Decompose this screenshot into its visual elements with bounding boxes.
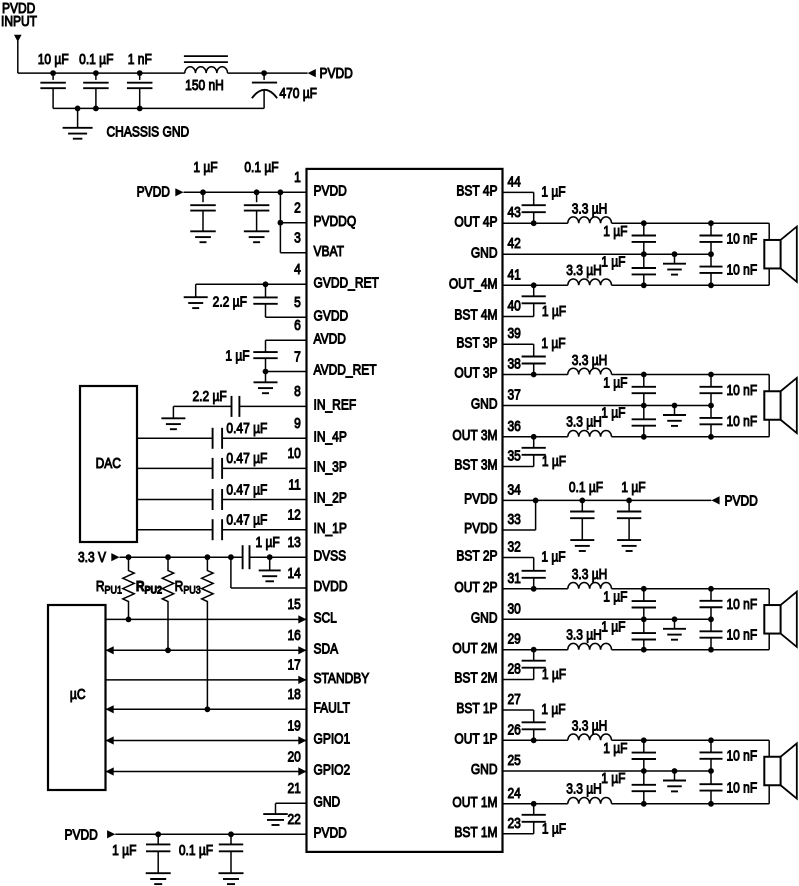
svg-text:SDA: SDA [314, 640, 339, 656]
capacitor 1 uF DVSS (series) [243, 545, 250, 569]
capacitor 10 nF 2M [700, 619, 723, 649]
label 0.1 uF mid [569, 479, 603, 495]
node junction BST2P on OUT 2P [531, 586, 537, 592]
capacitor 1 uF bootstrap 1M [522, 804, 546, 822]
svg-text:INPUT: INPUT [1, 13, 37, 29]
inductor 150 nH [185, 67, 228, 73]
svg-text:10 nF: 10 nF [727, 262, 758, 278]
svg-text:1 µF: 1 µF [601, 253, 625, 269]
node junction C1uF bottom [155, 831, 161, 837]
pin numbers left (1-22) [287, 169, 300, 827]
input arrow (down) [14, 35, 22, 42]
label 1 uF BST 4M [542, 303, 566, 319]
wire BST 2M stub [503, 668, 534, 680]
wire OUT 2M [503, 649, 568, 651]
node junction GND25 a [641, 768, 647, 774]
net label PVDD INPUT [1, 0, 37, 29]
capacitor 1 uF filter 1M [632, 771, 656, 804]
inductor 3.3 uH OUT 3M [568, 430, 612, 436]
node junction GND30 b [672, 616, 678, 622]
svg-text:IN_4P: IN_4P [314, 428, 348, 444]
svg-text:1 µF: 1 µF [255, 534, 279, 550]
capacitor 0.1 uF mid [570, 500, 594, 539]
svg-text:150 nH: 150 nH [185, 77, 224, 93]
svg-text:470 µF: 470 µF [279, 85, 317, 101]
wire BST 1M stub [503, 822, 534, 834]
net arrow 3.3V [111, 553, 119, 561]
node junction GND25 c [708, 768, 714, 774]
label 1 uF BST 3P [541, 335, 565, 351]
label 1 uF BST 2P [541, 548, 565, 564]
ground IN_REF [161, 406, 185, 429]
resistor RPU3 [202, 557, 213, 709]
svg-text:PVDD: PVDD [464, 491, 497, 507]
ground 0.1uF mid [570, 540, 594, 551]
pin names right [449, 183, 498, 841]
svg-text:3.3 µH: 3.3 µH [566, 262, 602, 278]
label 10 nF 4P [727, 231, 758, 247]
label 1 uF filter 2P [603, 589, 627, 605]
svg-text:1 µF: 1 µF [541, 335, 565, 351]
wire OUT 4P [503, 222, 568, 224]
op-amp/IC U1 body [307, 169, 503, 852]
capacitor 1 uF filter 2M [632, 619, 656, 649]
node junction BST4P on OUT 4P [531, 220, 537, 226]
svg-text:IN_3P: IN_3P [314, 459, 348, 475]
node junction gnd bus 0.1uF [93, 106, 99, 112]
svg-text:24: 24 [508, 785, 521, 801]
svg-text:19: 19 [287, 717, 300, 733]
svg-text:GVDD: GVDD [314, 307, 349, 323]
wire AVDD_RET [266, 371, 307, 373]
label 3.3 uH OUT 4M [566, 262, 602, 278]
wire PVDD input rail [18, 72, 185, 74]
svg-text:OUT_4M: OUT_4M [449, 275, 498, 291]
pin numbers right (23-44) [508, 173, 521, 831]
svg-text:µC: µC [70, 686, 86, 702]
svg-text:PVDD: PVDD [725, 492, 758, 508]
svg-text:10 nF: 10 nF [727, 413, 758, 429]
capacitor 10 nF 4P [700, 223, 723, 254]
svg-text:OUT 2M: OUT 2M [452, 640, 497, 656]
wire OUT 2P [503, 588, 568, 590]
svg-text:10 nF: 10 nF [727, 382, 758, 398]
svg-text:40: 40 [508, 298, 521, 314]
label 3.3 uH OUT 3P [572, 352, 608, 368]
ground output 1 [663, 771, 686, 791]
node junction GND37 b [672, 403, 678, 409]
svg-text:22: 22 [287, 811, 300, 827]
node junction branch pin2/3 [278, 189, 284, 195]
svg-text:3.3 µH: 3.3 µH [572, 201, 608, 217]
wire BST 2P stub [503, 558, 534, 571]
svg-text:0.1 µF: 0.1 µF [569, 479, 603, 495]
svg-text:DAC: DAC [96, 455, 122, 471]
ground output 2 [663, 619, 686, 639]
node junction OUT4P C10nF [708, 220, 714, 226]
svg-text:OUT 1M: OUT 1M [452, 794, 497, 810]
capacitor 0.47 uF pin9 [213, 428, 223, 449]
chassis ground [63, 108, 93, 138]
svg-text:1 µF: 1 µF [542, 820, 566, 836]
svg-text:OUT 3P: OUT 3P [454, 365, 497, 381]
svg-text:1 µF: 1 µF [603, 223, 627, 239]
wire 3.3V rail [120, 556, 243, 558]
svg-text:9: 9 [294, 415, 301, 431]
svg-text:GND: GND [471, 609, 498, 625]
wire OUT 3P [503, 374, 568, 376]
svg-text:BST 4M: BST 4M [454, 307, 497, 323]
label 1 uF BST 1P [541, 701, 565, 717]
svg-text:31: 31 [508, 570, 521, 586]
label 0.47 uF pin11 [226, 481, 267, 497]
svg-text:IN_1P: IN_1P [314, 520, 348, 536]
node junction 1nF top [137, 70, 143, 76]
node junction OUT3P C1uF [641, 372, 647, 378]
label 1 uF mid [621, 479, 645, 495]
wire BST 3P stub [503, 344, 534, 356]
svg-text:BST 1M: BST 1M [454, 824, 497, 840]
svg-text:OUT 4P: OUT 4P [454, 213, 497, 229]
inductor 3.3 uH OUT 2M [568, 643, 612, 649]
inductor 3.3 uH OUT 3P [568, 368, 612, 374]
node junction GND42 c [708, 251, 714, 257]
capacitor 1 nF [127, 83, 153, 109]
node junction GND42 b [672, 251, 678, 257]
wire OUT 4M [503, 284, 568, 286]
net arrow PVDD mid [711, 496, 719, 504]
node junction C0.1uF bottom [228, 831, 234, 837]
svg-text:7: 7 [294, 348, 301, 364]
svg-text:27: 27 [508, 691, 521, 707]
svg-text:PVDD: PVDD [137, 184, 170, 200]
svg-text:1 nF: 1 nF [128, 51, 152, 67]
label 10 nF 3P [727, 382, 758, 398]
svg-text:1 µF: 1 µF [603, 374, 627, 390]
inductor 3.3 uH OUT 2P [568, 583, 612, 589]
net label PVDD bottom [64, 826, 97, 842]
wire PVDD pin33 stub [503, 500, 536, 530]
wire ground bus [53, 107, 264, 109]
net label PVDD (pin1) [137, 184, 170, 200]
svg-text:BST 2M: BST 2M [454, 670, 497, 686]
label RPU1 [96, 578, 123, 597]
svg-text:16: 16 [287, 627, 300, 643]
label 1 uF BST 1M [542, 820, 566, 836]
wire SCL [106, 615, 307, 623]
svg-text:18: 18 [287, 686, 300, 702]
wire GPIO1 [106, 736, 307, 744]
wire OUT 4M to speaker [612, 268, 770, 285]
net label 3.3 V [78, 549, 106, 565]
svg-text:PVDD: PVDD [464, 520, 497, 536]
node junction pin2 [278, 220, 284, 226]
svg-text:0.1 µF: 0.1 µF [244, 159, 278, 175]
label 10 nF 2P [727, 596, 758, 612]
capacitor 1 uF AVDD [253, 340, 277, 371]
svg-text:3.3 µH: 3.3 µH [566, 781, 602, 797]
svg-text:1: 1 [294, 169, 301, 185]
capacitor 10 uF lead [52, 73, 54, 80]
label 10 uF [38, 51, 69, 67]
label 0.1 uF bottom [179, 842, 213, 858]
label 10 nF 3M [727, 413, 758, 429]
label DAC [96, 455, 122, 471]
svg-text:1 µF: 1 µF [112, 842, 136, 858]
net arrow PVDD bottom [107, 830, 115, 838]
label 0.47 uF pin10 [226, 450, 267, 466]
wire GND pin21 [276, 802, 307, 804]
label 1 uF filter 1P [603, 740, 627, 756]
ground DVSS [259, 557, 281, 581]
ground below 0.1uF pin1 [244, 231, 270, 242]
wire OUT 2P to speaker [612, 589, 770, 605]
svg-text:28: 28 [508, 661, 521, 677]
node junction GND30 a [641, 616, 647, 622]
svg-text:43: 43 [508, 204, 521, 220]
speaker channel 1 [764, 743, 797, 798]
node junction 470uF [261, 70, 267, 76]
node junction RPU2 top [165, 554, 171, 560]
wire AVDD [266, 339, 307, 341]
label 3.3 uH OUT 2M [566, 626, 602, 642]
wire DAC to cap IN pin9 [137, 437, 212, 439]
ground 1uF mid [617, 540, 641, 551]
node junction GND25 b [672, 768, 678, 774]
capacitor 1 uF bootstrap 2M [522, 650, 546, 668]
wire rail after inductor [228, 72, 308, 74]
svg-text:4: 4 [294, 261, 301, 277]
svg-text:1 µF: 1 µF [621, 479, 645, 495]
svg-text:GPIO2: GPIO2 [314, 762, 351, 778]
node junction gnd bus chassis [75, 106, 81, 112]
wire OUT 1P to speaker [612, 740, 770, 756]
node junction FAULT RPU3 [205, 706, 211, 712]
svg-text:2.2 µF: 2.2 µF [213, 293, 247, 309]
capacitor 0.1 uF bottom [219, 834, 243, 873]
svg-text:IN_REF: IN_REF [314, 397, 357, 413]
ground below 1uF pin1 [190, 231, 216, 242]
node junction OUT1M boot [531, 801, 537, 807]
capacitor 10 nF 4M [700, 254, 723, 285]
wire PVDD pin34 rail [503, 499, 712, 501]
svg-text:0.1 µF: 0.1 µF [179, 842, 213, 858]
node junction GVDD cap [263, 281, 269, 287]
svg-text:1 µF: 1 µF [541, 183, 565, 199]
wire GVDD_RET [196, 283, 307, 285]
svg-text:GND: GND [471, 244, 498, 260]
node junction GND42 a [641, 251, 647, 257]
svg-text:3.3 µH: 3.3 µH [572, 352, 608, 368]
wire OUT 3P to speaker [612, 375, 770, 392]
label 1 uF filter 3P [603, 374, 627, 390]
node junction RPU3 top [205, 554, 211, 560]
capacitor 1 uF bottom [146, 834, 170, 873]
capacitor 1 uF filter 4P [632, 223, 656, 254]
capacitor 470 uF (polarized) [252, 73, 277, 108]
node junction OUT2P C1uF [641, 586, 647, 592]
svg-text:3.3 V: 3.3 V [78, 549, 106, 565]
wire BST 1P stub [503, 710, 534, 722]
ground pin21 [263, 803, 288, 825]
svg-text:2: 2 [294, 200, 301, 216]
wire DAC to cap IN pin11 [137, 499, 212, 501]
ground 1uF bottom [146, 873, 171, 884]
ground output 3 [663, 406, 686, 426]
ground GVDD_RET [184, 284, 208, 308]
svg-text:10 nF: 10 nF [727, 596, 758, 612]
node junction OUT1M C10nF [708, 801, 714, 807]
wire PVDD rail pin1 [184, 191, 307, 193]
node junction 0.1uF top [93, 70, 99, 76]
resistor RPU2 [162, 557, 173, 650]
node junction DVDD branch [228, 554, 234, 560]
wire DAC to cap IN pin12 [137, 529, 212, 531]
svg-text:3.3 µH: 3.3 µH [566, 414, 602, 430]
svg-text:17: 17 [287, 657, 300, 673]
wire SDA [106, 646, 307, 654]
svg-text:BST 4P: BST 4P [456, 183, 497, 199]
svg-text:GND: GND [471, 761, 498, 777]
capacitor 0.1 uF (pin1) [244, 192, 270, 231]
node junction GND30 c [708, 616, 714, 622]
svg-text:PVDD: PVDD [314, 824, 347, 840]
node junction OUT3M C1uF [641, 434, 647, 440]
svg-text:PVDD: PVDD [64, 826, 97, 842]
svg-text:STANDBY: STANDBY [314, 670, 370, 686]
capacitor 0.47 uF pin10 [213, 458, 223, 479]
svg-text:CHASSIS GND: CHASSIS GND [107, 123, 190, 139]
svg-text:0.47 µF: 0.47 µF [226, 481, 267, 497]
svg-text:DVDD: DVDD [314, 578, 348, 594]
node junction RPU1 top [126, 554, 132, 560]
svg-text:10 nF: 10 nF [727, 231, 758, 247]
capacitor 0.47 uF pin11 [213, 489, 223, 510]
svg-text:DVSS: DVSS [314, 547, 347, 563]
speaker channel 3 [764, 378, 797, 433]
svg-text:BST 1P: BST 1P [456, 700, 497, 716]
svg-text:1 µF: 1 µF [542, 303, 566, 319]
node junction OUT3M boot [531, 434, 537, 440]
node junction OUT4M C1uF [641, 282, 647, 288]
ferrite bead core [184, 56, 228, 62]
wire OUT 4P to speaker [612, 223, 770, 240]
wire DAC to cap IN pin10 [137, 467, 212, 469]
capacitor 10 uF [40, 83, 66, 109]
svg-text:10 nF: 10 nF [727, 748, 758, 764]
svg-text:GVDD_RET: GVDD_RET [314, 274, 379, 290]
label 1 uF bottom [112, 842, 136, 858]
node junction OUT1M C1uF [641, 801, 647, 807]
svg-text:10 µF: 10 µF [38, 51, 69, 67]
net arrow PVDD (top right) [308, 69, 316, 77]
node junction BST1P on OUT 1P [531, 737, 537, 743]
wire OUT 1P [503, 739, 568, 741]
label 0.47 uF pin9 [226, 420, 267, 436]
label 1 uF BST 3M [542, 453, 566, 469]
wire cap to IC pin10 [222, 467, 306, 469]
node junction OUT3M C10nF [708, 434, 714, 440]
svg-text:10 nF: 10 nF [727, 779, 758, 795]
svg-text:1 µF: 1 µF [601, 770, 625, 786]
svg-text:3.3 µH: 3.3 µH [572, 718, 608, 734]
svg-text:3.3 µH: 3.3 µH [572, 566, 608, 582]
wire GND 30 [503, 618, 712, 620]
node junction C 0.1uF pin1 [254, 189, 260, 195]
svg-text:OUT 3M: OUT 3M [452, 427, 497, 443]
label 1 uF filter 1M [601, 770, 625, 786]
capacitor 1 uF mid [617, 500, 641, 539]
wire OUT 3M [503, 436, 568, 438]
wire FAULT [106, 705, 307, 713]
wire cap to IC pin9 [222, 437, 306, 439]
svg-text:35: 35 [508, 448, 521, 464]
svg-text:29: 29 [508, 631, 521, 647]
svg-text:1 µF: 1 µF [541, 548, 565, 564]
svg-text:23: 23 [508, 815, 521, 831]
resistor RPU1 [123, 557, 134, 619]
capacitor 1 uF (pin1) [190, 192, 216, 231]
wire GPIO2 [106, 767, 307, 775]
capacitor 10 nF 1M [700, 771, 723, 804]
svg-text:37: 37 [508, 387, 521, 403]
speaker channel 4 [764, 227, 797, 282]
capacitor 0.1 uF input lead [95, 73, 97, 80]
capacitor 1 uF filter 3M [632, 406, 656, 437]
svg-text:30: 30 [508, 600, 521, 616]
capacitor 0.47 uF pin12 [213, 519, 223, 540]
label 10 nF 1P [727, 748, 758, 764]
svg-text:36: 36 [508, 418, 521, 434]
svg-text:GND: GND [314, 793, 341, 809]
wire OUT 1M [503, 803, 568, 805]
capacitor 1 uF filter 2P [632, 589, 656, 620]
svg-text:1 µF: 1 µF [542, 666, 566, 682]
wire IN_REF right [240, 405, 307, 407]
capacitor 10 nF 3P [700, 375, 723, 406]
label RPU3 [175, 578, 202, 597]
svg-text:GND: GND [471, 396, 498, 412]
capacitor 1 uF bootstrap 2P [522, 571, 546, 589]
wire GND 42 [503, 253, 712, 255]
svg-text:FAULT: FAULT [314, 699, 350, 715]
svg-text:6: 6 [294, 317, 301, 333]
svg-text:26: 26 [508, 721, 521, 737]
node junction OUT4P C1uF [641, 220, 647, 226]
capacitor 1 uF filter 1P [632, 740, 656, 771]
node junction OUT3P C10nF [708, 372, 714, 378]
label uC [70, 686, 86, 702]
node junction C 1uF [200, 189, 206, 195]
capacitor 1 nF lead [139, 73, 141, 80]
node junction BST3P on OUT 3P [531, 372, 537, 378]
wire DVDD [231, 557, 307, 588]
capacitor 1 uF bootstrap 1P [522, 722, 546, 740]
node junction OUT1P C1uF [641, 737, 647, 743]
ground output 4 [663, 254, 686, 274]
wire branch to VBAT [280, 192, 306, 252]
svg-text:RPU2: RPU2 [136, 578, 163, 597]
svg-text:33: 33 [508, 511, 521, 527]
label 0.1 uF [79, 51, 113, 67]
node junction OUT4M C10nF [708, 282, 714, 288]
capacitor 1 uF bootstrap 3M [522, 437, 546, 455]
label 3.3 uH OUT 4P [572, 201, 608, 217]
node junction OUT2M C1uF [641, 647, 647, 653]
wire OUT 3M to speaker [612, 420, 770, 437]
svg-text:32: 32 [508, 539, 521, 555]
label 1 nF [128, 51, 152, 67]
